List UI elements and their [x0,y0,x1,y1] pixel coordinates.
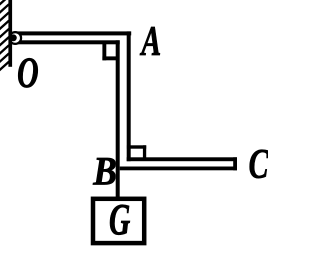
bar OA bottom edge [14,40,120,44]
bar AB right edge [127,31,131,161]
bar BC end cap at C [233,157,237,170]
right-angle mark at A [102,41,106,60]
bar OA top edge [14,31,131,35]
svg-text:G: G [109,195,130,245]
wall line [8,0,12,67]
pivot pin dot [10,34,17,41]
pivot ring at O [9,32,21,44]
svg-text:B: B [92,150,117,195]
svg-text:A: A [140,17,161,64]
right-angle mark at B [127,145,146,148]
weight box G [93,199,144,243]
bar BC top edge [127,157,237,161]
wall hatching [0,0,9,71]
svg-text:C: C [249,140,268,188]
bar AB left edge + string to weight [116,40,120,200]
svg-text:O: O [17,49,39,97]
bar BC bottom edge [120,167,237,171]
